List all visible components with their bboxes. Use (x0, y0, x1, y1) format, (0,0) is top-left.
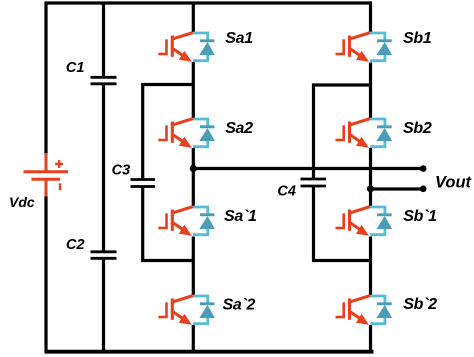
svg-text:C2: C2 (66, 237, 85, 253)
svg-text:C1: C1 (66, 60, 85, 76)
svg-text:Sb1: Sb1 (403, 30, 432, 47)
svg-text:Sa`1: Sa`1 (224, 208, 257, 225)
svg-text:Sa1: Sa1 (225, 30, 253, 47)
svg-text:C4: C4 (277, 183, 296, 199)
svg-text:C3: C3 (112, 162, 131, 178)
svg-text:Sa`2: Sa`2 (223, 296, 256, 313)
svg-text:Sb`1: Sb`1 (403, 208, 437, 225)
svg-text:Vout: Vout (435, 173, 473, 191)
svg-text:Sb2: Sb2 (403, 120, 432, 137)
svg-text:Sa2: Sa2 (225, 120, 253, 137)
svg-text:Sb`2: Sb`2 (403, 296, 437, 313)
svg-text:Vdc: Vdc (9, 194, 35, 210)
